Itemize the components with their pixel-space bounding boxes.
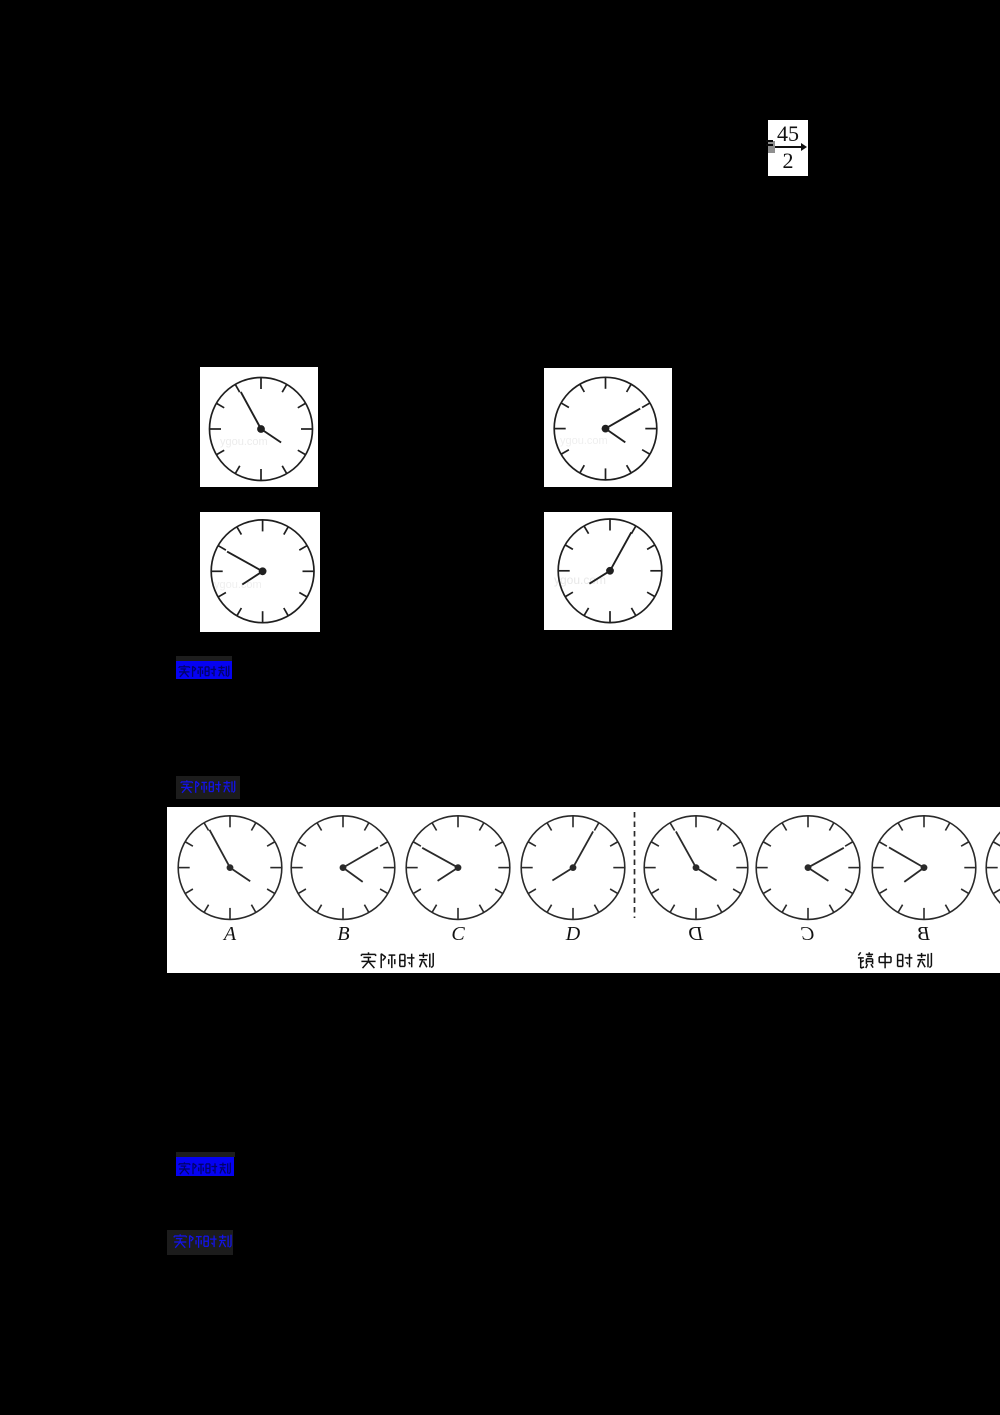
label 3 gray bar bbox=[176, 1152, 235, 1157]
mirrored letter B bbox=[904, 923, 944, 946]
letter A bbox=[210, 923, 250, 946]
strip clock A bbox=[174, 815, 286, 927]
fraction bar with arrow bbox=[771, 146, 803, 148]
clock image 4 box bbox=[544, 512, 672, 630]
svg-text:ygou.com: ygou.com bbox=[554, 573, 606, 587]
clock image 3 box bbox=[200, 512, 320, 632]
label 1 gray bar bbox=[176, 656, 232, 661]
label 1 blue highlight bbox=[176, 661, 232, 679]
label 3 blue highlight bbox=[176, 1157, 234, 1176]
clock image 2 box bbox=[544, 368, 672, 487]
gray selection handle bbox=[768, 141, 775, 153]
label 4 dark highlight bbox=[167, 1230, 233, 1255]
dashed divider line bbox=[631, 812, 639, 918]
letter C bbox=[438, 923, 478, 946]
mirrored letter D bbox=[676, 923, 716, 946]
clock image 1 box bbox=[200, 367, 318, 487]
label 2 dark highlight bbox=[176, 776, 240, 799]
caption mirror-time bbox=[855, 949, 937, 972]
mirrored letter C bbox=[788, 923, 828, 946]
label 3 glyphs bbox=[176, 1159, 234, 1177]
clock 2 (4:10 style) bbox=[544, 368, 672, 487]
strip clock B bbox=[287, 815, 399, 927]
strip clock Bm bbox=[868, 815, 980, 927]
svg-text:ygou.com: ygou.com bbox=[220, 436, 268, 448]
strip image with 8 clocks bbox=[167, 807, 1000, 973]
strip clock Cm bbox=[752, 815, 864, 927]
denominator 2 bbox=[768, 148, 808, 174]
strip clock Dm bbox=[640, 815, 752, 927]
svg-text:ygou.com: ygou.com bbox=[560, 435, 608, 447]
strip clock D bbox=[517, 815, 629, 927]
strip clock Am bbox=[982, 815, 1000, 927]
clock 3 (7:50 style) bbox=[200, 512, 320, 632]
label 1 glyphs bbox=[176, 662, 232, 680]
label 4 glyphs bbox=[171, 1231, 234, 1251]
letter D bbox=[553, 923, 593, 946]
equals sign fragment bbox=[766, 140, 773, 142]
label 2 glyphs bbox=[178, 777, 238, 796]
numerator 45 bbox=[768, 121, 808, 147]
caption actual-time bbox=[358, 949, 438, 972]
strip clock C bbox=[402, 815, 514, 927]
letter B bbox=[324, 923, 364, 946]
fraction 45/2 white box bbox=[768, 120, 808, 176]
clock 1 (4:55 style) bbox=[200, 367, 318, 487]
clock 4 (7:05 style) bbox=[544, 512, 672, 630]
svg-text:ygou.com: ygou.com bbox=[214, 579, 262, 591]
